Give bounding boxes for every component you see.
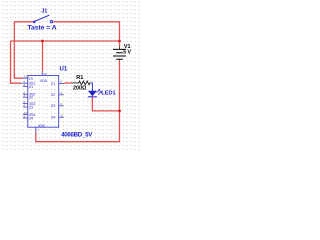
svg-text:13: 13 (24, 75, 28, 79)
U1 pin numbers (24, 72, 64, 133)
svg-text:8: 8 (24, 114, 26, 118)
U1 top pin 14 (41, 71, 43, 75)
LED1 arrows (97, 89, 102, 95)
svg-text:Z4: Z4 (51, 116, 55, 120)
chip U1 (4066BD_5V) box (28, 76, 59, 128)
svg-text:14: 14 (43, 72, 47, 76)
node: junction at VDD drop (41, 40, 44, 43)
svg-text:U1: U1 (60, 67, 68, 73)
svg-text:VDD: VDD (40, 79, 48, 83)
svg-text:11: 11 (60, 114, 63, 118)
svg-text:4: 4 (24, 103, 26, 107)
wire: left rail x=10.5 down to U1 pin row y=83.2 (11, 41, 22, 83)
svg-text:Taste = A: Taste = A (27, 25, 56, 32)
svg-text:3: 3 (24, 94, 26, 98)
wire: switch-right net, top rail to right corner down to battery + (53, 22, 119, 47)
svg-text:J1: J1 (41, 9, 47, 15)
U1 bottom pin 7 (35, 127, 37, 132)
wire: U1 right pin to R1 (65, 82, 73, 84)
svg-text:Z2: Z2 (29, 96, 33, 100)
svg-text:Z2: Z2 (51, 93, 55, 97)
svg-text:Z1: Z1 (51, 82, 55, 86)
svg-text:2: 2 (24, 83, 26, 87)
node: junction LED net at right rail (118, 110, 121, 113)
svg-text:7: 7 (37, 129, 39, 133)
U1 right pins (59, 83, 65, 117)
battery V1 (113, 47, 126, 61)
svg-text:R1: R1 (76, 75, 83, 81)
svg-text:Z3: Z3 (29, 105, 33, 109)
svg-text:2: 2 (60, 80, 62, 84)
resistor R1 (73, 81, 91, 85)
svg-text:13: 13 (29, 77, 33, 81)
wire: VDD drop from junction to U1 top pin (42, 41, 44, 71)
svg-text:200Ω: 200Ω (73, 86, 87, 92)
svg-text:Z4: Z4 (29, 116, 33, 120)
svg-text:Z1: Z1 (29, 85, 33, 89)
wire: battery - down right rail, bottom rail, up to U1 bottom pin (36, 61, 120, 142)
svg-text:VSS: VSS (38, 124, 46, 128)
svg-text:3: 3 (60, 91, 62, 95)
svg-text:LED1: LED1 (101, 90, 115, 96)
LED1 (91, 83, 93, 91)
wire: horizontal net y=41 from left rail to right rail (11, 40, 120, 42)
U1 left pins (21, 78, 28, 118)
svg-text:9: 9 (60, 102, 62, 106)
wire: switch-left net, from J1 left terminal down left rail to U1 pin row y=78.2 (14, 22, 33, 78)
wire: LED cathode to right rail (92, 97, 119, 111)
svg-text:5 V: 5 V (123, 50, 131, 56)
node: junction at right rail y=41 (118, 40, 121, 43)
svg-text:Z3: Z3 (51, 104, 55, 108)
U1 inner pin names (29, 77, 55, 128)
svg-text:4066BD_5V: 4066BD_5V (61, 131, 93, 138)
switch J1 (33, 15, 53, 23)
